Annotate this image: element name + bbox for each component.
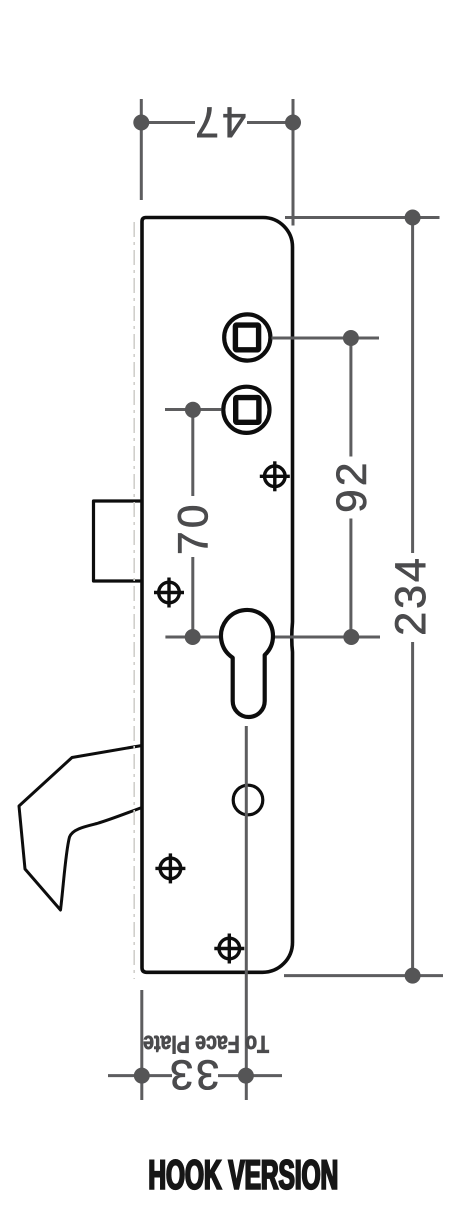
dim 234: dimension line [411, 218, 414, 554]
dim line: cylinder centre horizontal (y 637) [165, 636, 380, 639]
dim 33: lines [108, 726, 282, 1100]
label 47 [197, 108, 245, 138]
hook bolt [19, 746, 142, 911]
title HOOK VERSION [150, 1160, 336, 1189]
latch deadbolt [94, 501, 144, 581]
dim 234: dots [405, 210, 421, 226]
plain round hole [233, 785, 263, 815]
dim 33: dots [134, 1068, 150, 1084]
upper spindle square [235, 325, 258, 350]
dim 47: extension lines [141, 99, 293, 226]
dim 70: dots [185, 402, 201, 418]
label To Face Plate [144, 1036, 269, 1054]
screw hole 1 [260, 461, 290, 491]
dim 70: lines [165, 410, 222, 638]
screw hole 2 [154, 578, 184, 608]
dim 92: dots [343, 330, 359, 346]
lower spindle square [236, 398, 259, 423]
lower spindle hole circle [223, 387, 269, 433]
dim 234: extension lines [284, 218, 443, 976]
dim 47: dimension line [141, 121, 195, 124]
faceplate centerline (dash-dot) [133, 222, 135, 979]
upper spindle hole circle [224, 314, 270, 360]
label 70 [178, 506, 208, 553]
screw hole 4 [214, 934, 244, 964]
dim 92: lines [272, 338, 380, 637]
label 33 [172, 1060, 218, 1090]
dim 47: dots [133, 115, 149, 131]
label 92 [336, 465, 366, 511]
screw hole 3 [155, 853, 185, 883]
lock case plate [142, 218, 293, 973]
label 234 [395, 559, 426, 633]
euro cylinder hole [221, 610, 273, 717]
